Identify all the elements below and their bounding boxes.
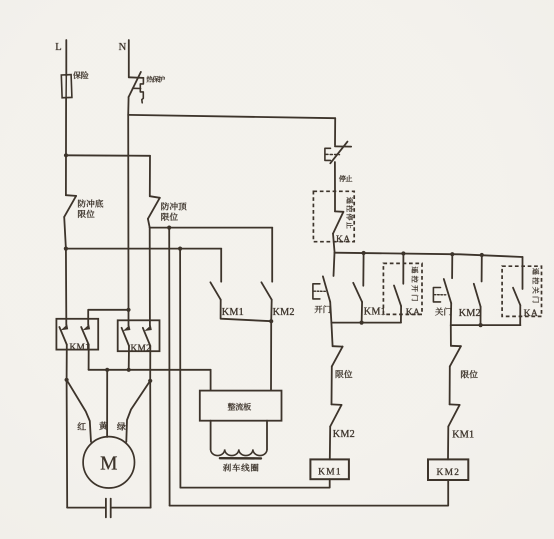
wire to node at y248 bbox=[64, 217, 66, 249]
wire x150 down to KM2 main contact right pole bbox=[149, 228, 151, 321]
wire bus y227 to KM2 rectifier contact bbox=[150, 227, 273, 229]
wire to rectifier input right bbox=[270, 321, 272, 390]
wire L rail to limit switch bbox=[65, 98, 67, 196]
KM2 pole1 fixed pin bbox=[128, 310, 130, 326]
wire bbox=[331, 366, 333, 404]
wire KM1 pole1 out bbox=[66, 345, 68, 380]
coil KM1 bbox=[310, 459, 349, 479]
wire control feed y116 to stop button bbox=[128, 115, 335, 118]
wire capacitor left lead bbox=[67, 507, 105, 509]
svg-text:KM1: KM1 bbox=[452, 429, 474, 440]
svg-text:KM1: KM1 bbox=[222, 307, 244, 318]
wire close-group junction y325 bbox=[451, 324, 521, 326]
contact KM2 holding (NO) bbox=[481, 255, 483, 282]
wire N rail down to KM2 main contact bbox=[127, 115, 129, 310]
wire y505 to KM2 coil bottom bbox=[170, 480, 449, 506]
svg-text:L: L bbox=[55, 42, 61, 53]
capacitor C (phase cap) bbox=[105, 499, 107, 518]
fuse FU (保险) bbox=[61, 75, 72, 98]
wire stop to KA box bbox=[334, 162, 336, 191]
relay contact KA 遥控停止 (dashed box) bbox=[313, 191, 354, 241]
svg-text:M: M bbox=[100, 454, 117, 475]
node L-155 junction bbox=[64, 153, 68, 157]
wire y487 to KM1 coil bottom bbox=[180, 479, 329, 487]
wire L down to KM1 main contact bbox=[65, 249, 67, 319]
wire red motor lead (红) bbox=[67, 380, 91, 442]
svg-text:KA: KA bbox=[406, 307, 420, 318]
wire KM2 pole2 down to capacitor/green junction bbox=[149, 346, 151, 381]
relay contact KA 遥控开门 (dashed box) bbox=[383, 263, 422, 314]
wire yellow motor lead (黄) bbox=[106, 370, 108, 437]
node red-wire junction bbox=[65, 378, 69, 382]
node yellow junction bbox=[105, 368, 109, 372]
motor M bbox=[83, 437, 134, 488]
node KM2 pole1 junction bbox=[127, 368, 131, 372]
push button 停止 (NC stop) bbox=[334, 118, 336, 145]
svg-text:KA: KA bbox=[336, 234, 350, 245]
wire L rail top bbox=[65, 40, 67, 76]
KM2 pole2 fixed pin bbox=[149, 321, 151, 327]
wire open-group junction y322 bbox=[331, 322, 401, 324]
wire x180 return to KM1 coil bbox=[179, 249, 181, 488]
KM1 pole1 fixed pin bbox=[65, 319, 67, 325]
wire to KM1 coil bbox=[329, 427, 331, 460]
node junction y248/x180 bbox=[178, 247, 182, 251]
interlock contact KM1 (NC) bbox=[450, 403, 460, 406]
svg-text:KM2: KM2 bbox=[131, 344, 152, 354]
wire KM1 pole2 feed from N bbox=[88, 310, 128, 325]
wire control bus y253 bbox=[335, 253, 523, 257]
limit switch 限位 (close, NC) bbox=[450, 325, 452, 346]
rectifier board 整流板 bbox=[200, 391, 282, 421]
contact KM1 holding (NO) bbox=[362, 253, 364, 286]
svg-text:KM2: KM2 bbox=[459, 308, 481, 319]
thermal protector FR (热保护) NC contact bbox=[129, 76, 144, 79]
KM1 pole2 blade bbox=[81, 327, 89, 345]
contact KM1 rectifier feed (NO) bbox=[220, 249, 222, 282]
wire KM2 pole1 out bbox=[128, 346, 130, 370]
svg-text:KM2: KM2 bbox=[273, 307, 295, 318]
KM2 pole2 blade bbox=[143, 328, 151, 346]
wire bus end down to KA close box bbox=[522, 257, 524, 289]
wire x169 return to KM2 coil bbox=[168, 228, 170, 506]
wire below upper limit switch bbox=[148, 219, 150, 228]
relay contact KA 遥控关门 (dashed box) bbox=[502, 266, 541, 316]
wire rectifier output left bbox=[210, 421, 212, 450]
contactor KM2 main contacts box bbox=[118, 320, 160, 351]
wire motor common bus y369 bbox=[89, 369, 211, 371]
contact KM2 rectifier feed (NO) bbox=[271, 228, 273, 282]
wire L down to capacitor bbox=[66, 380, 69, 508]
brake coil 刹车线圈 (inductor) bbox=[211, 449, 267, 455]
wire N below thermal bbox=[127, 97, 129, 115]
coil KM2 bbox=[428, 459, 468, 480]
limit switch 限位 (open, NC) bbox=[331, 323, 332, 347]
svg-text:KM2: KM2 bbox=[437, 468, 461, 478]
limit switch 防冲顶限位 (NC) bbox=[149, 156, 151, 196]
svg-text:N: N bbox=[119, 42, 127, 53]
push button 开门 (NO open) bbox=[334, 253, 335, 276]
wire rectifier output right bbox=[266, 421, 268, 450]
wire capacitor right lead bbox=[112, 507, 151, 509]
node green-wire junction bbox=[148, 379, 152, 383]
KM2 pole1 blade bbox=[122, 328, 129, 346]
node junction y227/x169 bbox=[167, 226, 171, 230]
wire rectifier input left from motor bus bbox=[210, 370, 212, 391]
wire to KM2 coil bbox=[447, 427, 449, 460]
wire branch y155 to upper limit line bbox=[66, 154, 150, 157]
interlock contact KM2 (NC) bbox=[332, 403, 342, 406]
node L-248 junction bbox=[64, 247, 68, 251]
wire green motor lead (绿) bbox=[126, 381, 150, 442]
limit switch 防冲底限位 (NC) bbox=[66, 194, 76, 197]
contactor KM1 main contacts box bbox=[56, 319, 98, 350]
push button 关门 (NO close) bbox=[451, 254, 453, 278]
node rectifier feed junction bbox=[269, 319, 273, 323]
wire N rail top bbox=[128, 40, 130, 77]
wire KM1 pole2 out bbox=[88, 345, 90, 370]
wire bus y248 to KM1 rectifier contact bbox=[66, 248, 221, 250]
wire bbox=[449, 366, 451, 404]
svg-text:KM2: KM2 bbox=[333, 429, 355, 440]
svg-text:KA: KA bbox=[524, 308, 538, 319]
svg-text:KM1: KM1 bbox=[318, 468, 342, 478]
node N junction y309 bbox=[126, 308, 130, 312]
svg-text:KM1: KM1 bbox=[70, 343, 91, 353]
wire green line down to capacitor bbox=[149, 381, 151, 508]
KM1 pole1 blade bbox=[59, 327, 66, 345]
